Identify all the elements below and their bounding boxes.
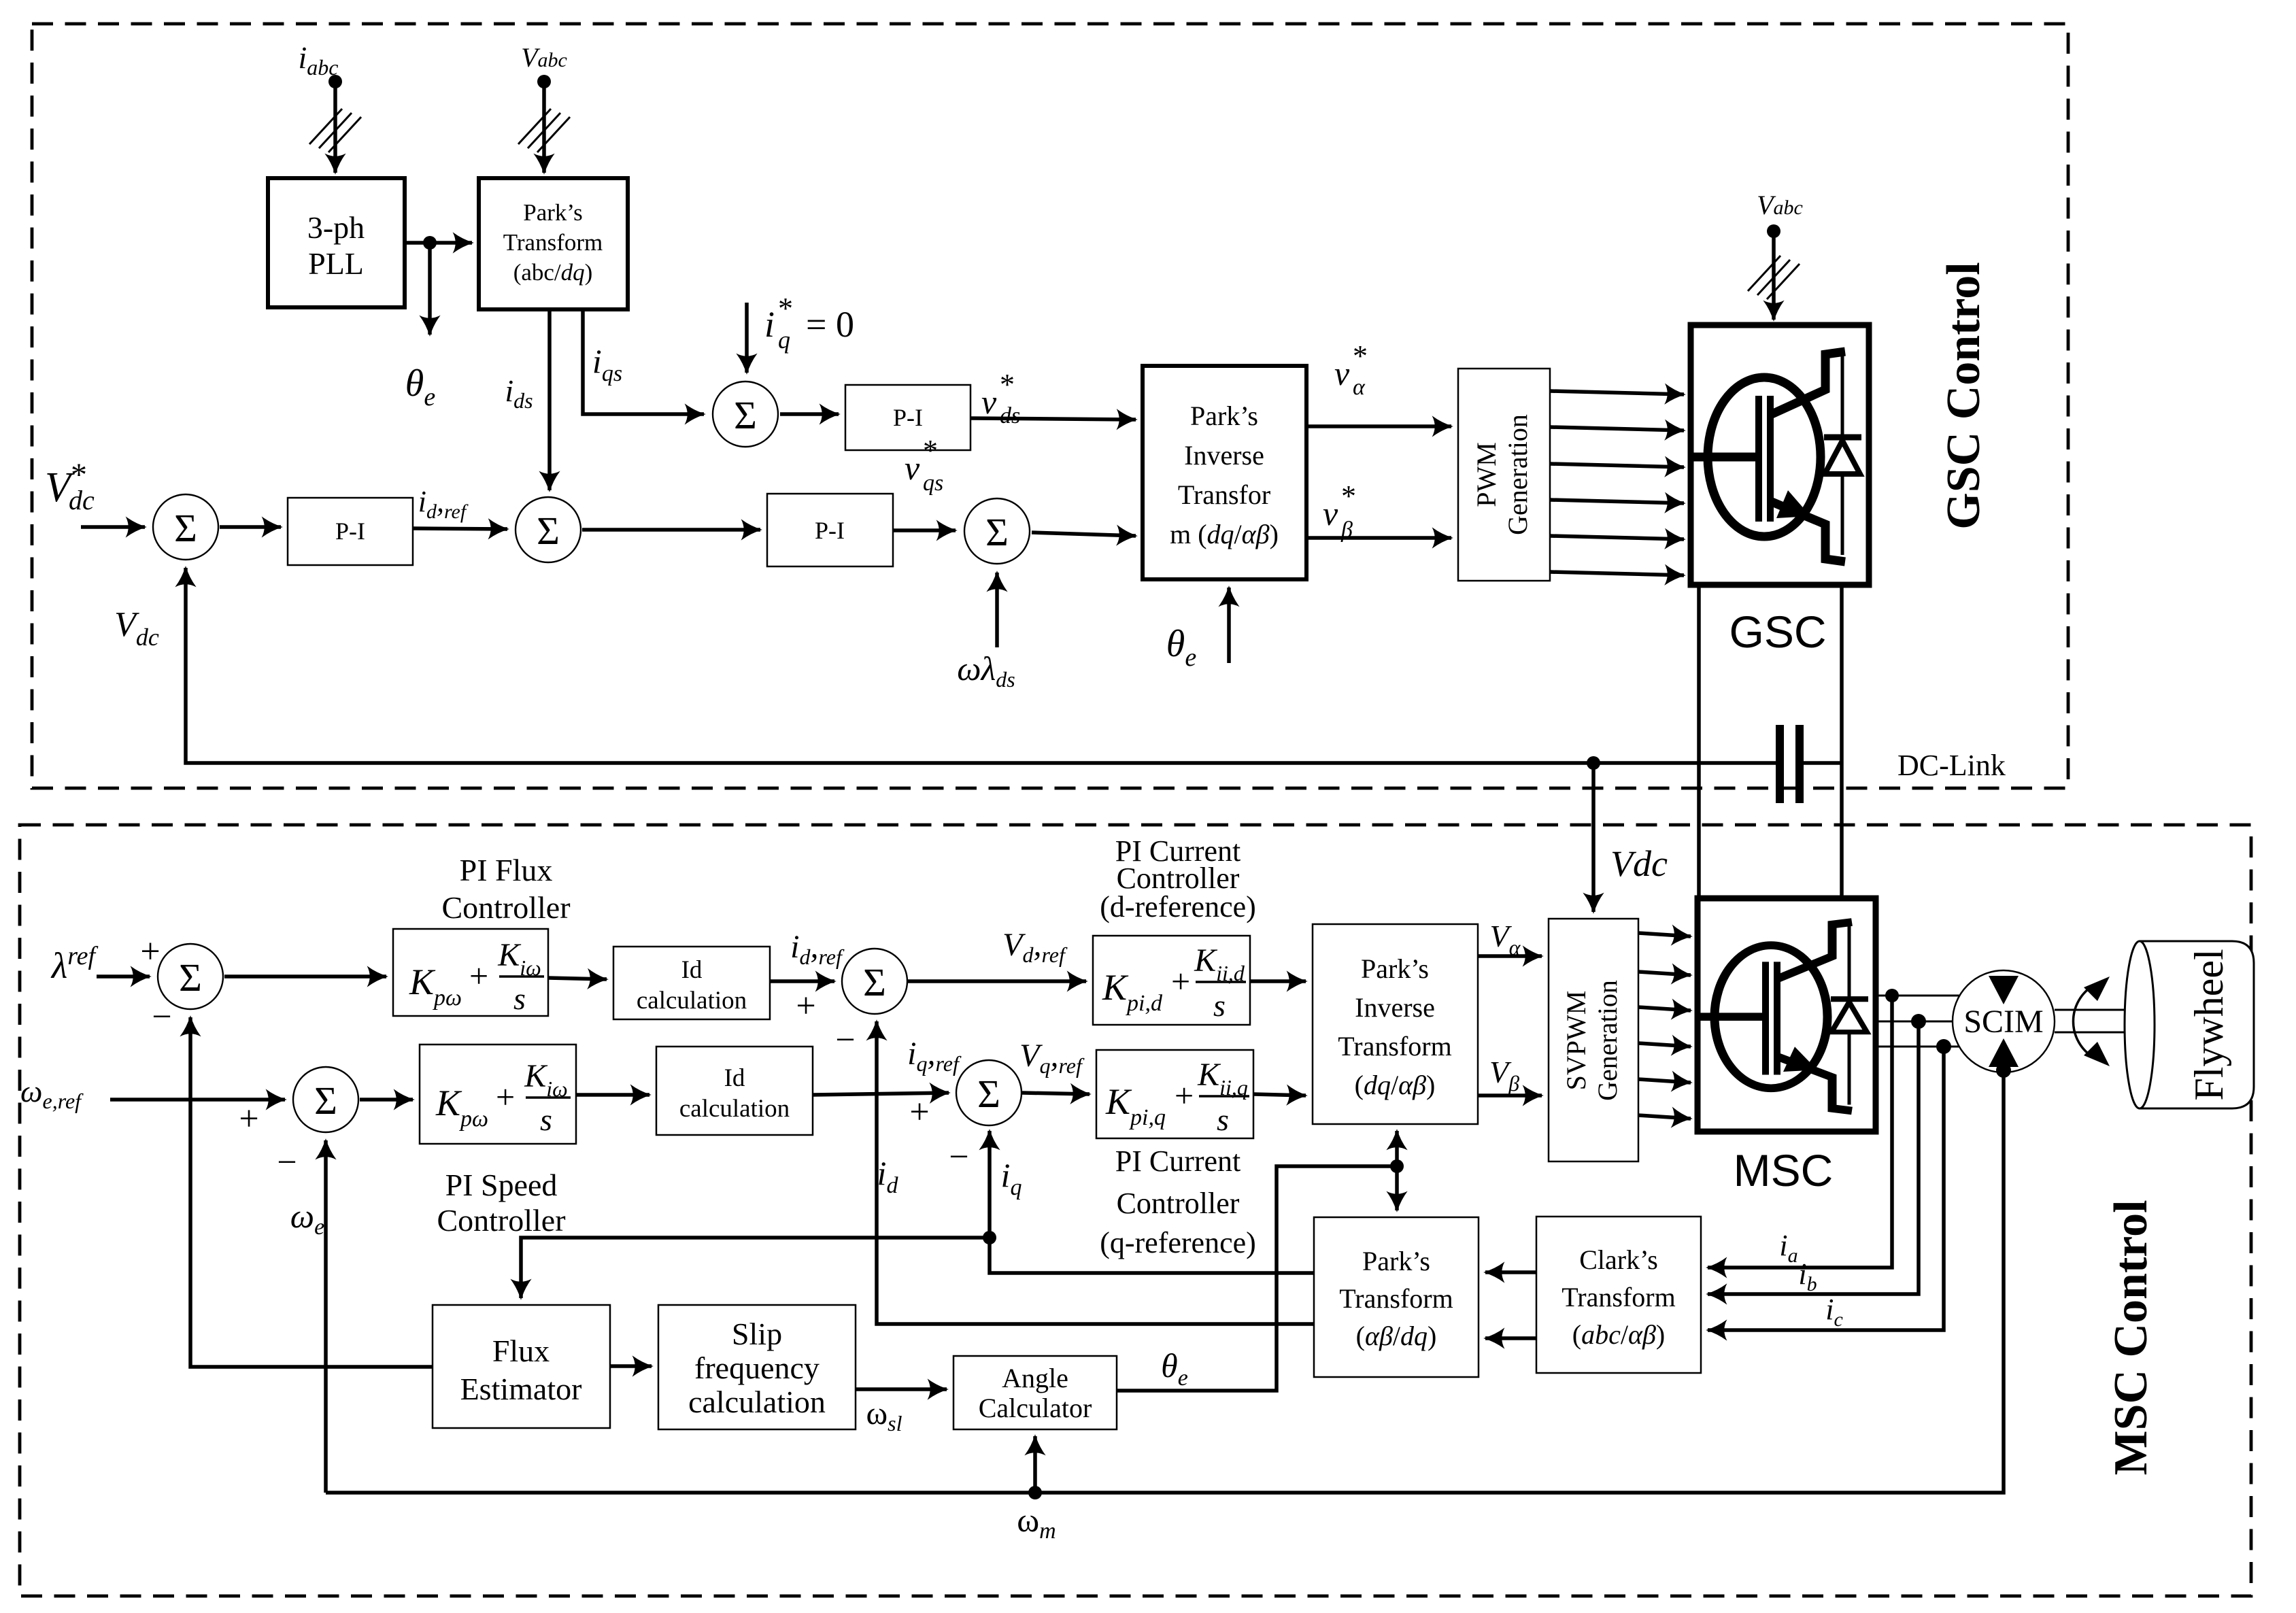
wire MSC phase c to SCIM xyxy=(1876,1046,1961,1048)
svg-text:β: β xyxy=(1340,517,1353,543)
svg-text:= 0: = 0 xyxy=(806,304,854,345)
svg-text:s: s xyxy=(1213,988,1226,1023)
wire vds* to Park's Inverse Transform xyxy=(970,368,1136,428)
svg-text:Σ: Σ xyxy=(174,506,197,550)
wire Sf to flux PI block xyxy=(224,974,386,979)
svg-text:Flux: Flux xyxy=(492,1334,550,1368)
machine SCIM xyxy=(1953,970,2055,1078)
wire SVPWM gate signal 2 to MSC xyxy=(1638,972,1691,975)
wire omega_e feedback into Ss xyxy=(290,1140,326,1493)
wire PWM gate signal 2 to GSC xyxy=(1550,427,1684,430)
svg-text:Transfor: Transfor xyxy=(1178,479,1270,510)
wire Vabc to Park's Transform with hash xyxy=(518,82,570,173)
wire Sq to P-I q controller xyxy=(780,412,839,416)
wire Flux Estimator to Slip frequency calculation xyxy=(610,1364,652,1368)
wire PWM gate signal 4 to GSC xyxy=(1550,500,1684,503)
svg-text:v: v xyxy=(981,383,997,421)
svg-text:Transform: Transform xyxy=(1561,1282,1675,1312)
node theta_e input to Park's Inverse xyxy=(1166,588,1229,672)
svg-text:Id: Id xyxy=(724,1064,745,1092)
svg-text:v: v xyxy=(1323,494,1338,532)
wire P-I to summing junction S3 xyxy=(893,528,956,532)
svg-text:Park’s: Park’s xyxy=(1361,953,1429,984)
svg-text:Transform: Transform xyxy=(1338,1031,1451,1062)
block Id calculation (q path) xyxy=(656,1047,813,1135)
summing junction S1 (Vdc control) xyxy=(153,494,218,560)
svg-text:*: * xyxy=(778,292,793,325)
wire flux feedback from Flux Estimator to Sf xyxy=(190,1017,433,1367)
svg-text:SVPWM: SVPWM xyxy=(1561,991,1591,1091)
svg-text:*: * xyxy=(923,434,938,467)
wire ids from Park's Transform to summing junction S2 xyxy=(505,309,550,490)
svg-text:+: + xyxy=(1175,1076,1194,1115)
wire Clark's to Park's Transform (alpha) xyxy=(1485,1270,1536,1274)
wire PWM gate signal 1 to GSC xyxy=(1550,391,1684,394)
svg-text:Σ: Σ xyxy=(977,1072,1000,1116)
svg-text:m (dq/αβ): m (dq/αβ) xyxy=(1170,519,1279,549)
svg-text:Vdc: Vdc xyxy=(1610,843,1668,884)
svg-text:Σ: Σ xyxy=(863,960,886,1004)
wire SVPWM gate signal 3 to MSC xyxy=(1638,1007,1691,1011)
summing junction S3 (feed-forward) xyxy=(964,498,1030,564)
svg-text:Flywheel: Flywheel xyxy=(2187,949,2231,1100)
svg-text:P-I: P-I xyxy=(815,517,845,544)
svg-text:dc: dc xyxy=(69,485,95,515)
svg-text:Controller: Controller xyxy=(441,890,570,925)
wire GSC to MSC DC bus right xyxy=(1840,585,1844,898)
svg-text:+: + xyxy=(469,957,488,995)
wire MSC phase b to SCIM xyxy=(1876,1021,1955,1023)
svg-text:Σ: Σ xyxy=(179,955,202,1000)
shaft SCIM to Flywheel xyxy=(2055,1010,2133,1032)
svg-text:*: * xyxy=(1341,479,1356,513)
wire flux PI to Id calculation xyxy=(548,978,607,979)
summing junction Sf (flux) xyxy=(158,944,223,1009)
svg-text:SCIM: SCIM xyxy=(1963,1004,2043,1040)
wire SVPWM gate signal 6 to MSC xyxy=(1638,1115,1691,1119)
wire Ss to speed PI xyxy=(360,1098,413,1102)
block speed PI Kpw+Kiw/s xyxy=(420,1045,576,1144)
capacitor DC-Link xyxy=(1776,725,2006,803)
svg-text:+: + xyxy=(496,1078,515,1116)
svg-text:Estimator: Estimator xyxy=(460,1372,582,1406)
svg-text:Transform: Transform xyxy=(503,229,603,256)
node junction phase b xyxy=(1911,1014,1926,1029)
svg-text:q: q xyxy=(778,326,790,354)
svg-text:(αβ/dq): (αβ/dq) xyxy=(1356,1321,1437,1351)
wire Vq,ref to q current PI xyxy=(1019,1038,1090,1094)
svg-text:Id: Id xyxy=(681,956,703,984)
block SVPWM Generation xyxy=(1549,919,1638,1161)
block 3-ph PLL xyxy=(268,178,405,307)
wire d current PI to Park's Inverse (MSC) xyxy=(1250,979,1306,983)
wire iq from Park's Transform to Sq2 and Flux Estimator xyxy=(521,1131,1314,1298)
wire q current PI to Park's Inverse (MSC) xyxy=(1253,1094,1306,1096)
wire Vbeta to SVPWM xyxy=(1478,1055,1542,1096)
svg-text:α: α xyxy=(1353,375,1366,400)
block q current PI Kpiq+Kiiq/s xyxy=(1096,1050,1253,1138)
node lambda-ref input xyxy=(50,932,172,1036)
summing junction Sq (q-axis GSC) xyxy=(713,381,778,447)
wire PLL to Park's Transform xyxy=(405,236,472,250)
svg-text:Inverse: Inverse xyxy=(1355,992,1435,1023)
block Clark's Transform (abc/ab) xyxy=(1536,1217,1701,1373)
svg-text:qs: qs xyxy=(923,471,943,496)
wire Vdc feedback from DC-link to S1 xyxy=(114,568,1779,763)
summing junction Sq2 (q current) xyxy=(956,1060,1022,1125)
wire GSC to MSC DC bus left xyxy=(1697,585,1701,898)
wire id from Park's Transform to Sd xyxy=(877,1021,1314,1324)
svg-text:+: + xyxy=(796,987,815,1025)
svg-text:Transform: Transform xyxy=(1339,1283,1453,1314)
block Angle Calculator xyxy=(953,1356,1117,1429)
svg-text:(dq/αβ): (dq/αβ) xyxy=(1355,1070,1436,1100)
svg-text:PI Speed: PI Speed xyxy=(445,1168,558,1202)
heading PI Speed Controller xyxy=(437,1168,565,1238)
svg-text:GSC Control: GSC Control xyxy=(1938,262,1990,529)
svg-text:P-I: P-I xyxy=(335,517,365,545)
svg-text:i: i xyxy=(764,304,775,345)
node iq*=0 reference input xyxy=(747,292,854,373)
svg-text:*: * xyxy=(1353,339,1368,373)
block flux PI Kpw+Kiw/s xyxy=(393,929,548,1016)
wire S3 to Park's Inverse Transform xyxy=(1032,532,1136,536)
wire Vabc to GSC with 3-phase hash xyxy=(1748,231,1800,320)
svg-text:(q-reference): (q-reference) xyxy=(1100,1226,1256,1259)
heading PI Current Controller (d-reference) xyxy=(1100,834,1256,923)
wire speed PI to Id calculation (q path) xyxy=(576,1093,649,1097)
svg-text:ds: ds xyxy=(1000,403,1020,428)
svg-text:*: * xyxy=(1000,368,1015,401)
svg-text:PWM: PWM xyxy=(1471,442,1502,507)
svg-text:calculation: calculation xyxy=(679,1095,790,1123)
svg-text:−: − xyxy=(152,998,171,1036)
svg-text:PI Current: PI Current xyxy=(1115,1144,1241,1178)
node omega-lambda-ds feed-forward input xyxy=(957,573,1015,692)
wire iqs from Park's Transform to summing junction Sq xyxy=(583,309,704,414)
wire valpha* to PWM Generation xyxy=(1306,339,1451,426)
flywheel cylinder xyxy=(2125,941,2254,1108)
svg-text:Park’s: Park’s xyxy=(1190,401,1258,431)
wire SVPWM gate signal 1 to MSC xyxy=(1638,933,1691,936)
block P-I controller (q-axis) xyxy=(845,385,970,450)
node omega-e-ref input xyxy=(20,1074,297,1182)
wire S2 to P-I d controller xyxy=(582,528,760,532)
svg-text:frequency: frequency xyxy=(694,1351,820,1385)
wire iq,ref to summing junction Sq2 xyxy=(813,1036,969,1176)
wire Vdc sense from DC-link to SVPWM xyxy=(1587,756,1668,912)
svg-text:−: − xyxy=(949,1138,968,1176)
block P-I controller (dc-link) xyxy=(288,498,413,565)
svg-text:v: v xyxy=(905,449,920,487)
wire id,ref to summing junction Sd xyxy=(770,929,856,1059)
svg-text:P-I: P-I xyxy=(893,404,923,431)
svg-text:calculation: calculation xyxy=(637,987,747,1015)
node junction phase c xyxy=(1936,1039,1951,1054)
svg-text:PLL: PLL xyxy=(308,246,364,281)
node Vabc input terminal (left) xyxy=(521,42,567,88)
summing junction Ss (speed) xyxy=(293,1067,358,1132)
svg-text:Angle: Angle xyxy=(1002,1363,1068,1393)
svg-text:GSC: GSC xyxy=(1729,607,1826,657)
wire Valpha to SVPWM xyxy=(1478,919,1542,960)
block PWM Generation xyxy=(1458,369,1550,581)
wire omega_m measurement from SCIM xyxy=(326,1073,2004,1544)
rotation arrow on shaft xyxy=(2073,977,2110,1066)
node Vabc grid terminal at GSC xyxy=(1757,190,1803,238)
svg-text:+: + xyxy=(239,1100,258,1138)
svg-text:s: s xyxy=(1217,1102,1229,1137)
wire SVPWM gate signal 4 to MSC xyxy=(1638,1043,1691,1047)
heading PI Flux Controller xyxy=(441,853,570,925)
svg-text:(abc/dq): (abc/dq) xyxy=(513,259,593,286)
svg-text:Calculator: Calculator xyxy=(979,1393,1092,1423)
svg-text:+: + xyxy=(1171,962,1190,1000)
svg-text:Generation: Generation xyxy=(1502,414,1533,535)
svg-text:+: + xyxy=(140,932,160,971)
label MSC Control (rotated) xyxy=(2105,1200,2157,1475)
wire S1 to P-I dc controller xyxy=(220,525,281,529)
converter MSC (IGBT bridge) xyxy=(1698,898,1876,1132)
block Slip frequency calculation xyxy=(658,1305,856,1429)
block Park's Inverse Transform (dq/ab) GSC xyxy=(1143,366,1306,579)
svg-text:s: s xyxy=(540,1102,552,1137)
svg-text:Σ: Σ xyxy=(734,393,757,437)
converter GSC (IGBT bridge) xyxy=(1691,325,1869,585)
svg-text:Slip: Slip xyxy=(732,1317,782,1351)
MSC Control dashed border box xyxy=(20,825,2251,1596)
node Vdc* reference input xyxy=(45,457,145,527)
GSC Control dashed border box xyxy=(32,24,2068,788)
summing junction S2 (d-axis GSC) xyxy=(516,497,581,562)
svg-text:−: − xyxy=(277,1143,297,1182)
svg-text:Σ: Σ xyxy=(537,509,560,553)
summing junction Sd (d current) xyxy=(842,949,907,1014)
svg-text:(d-reference): (d-reference) xyxy=(1100,890,1256,923)
svg-text:MSC: MSC xyxy=(1734,1145,1834,1195)
wire Vd,ref to d current PI xyxy=(908,927,1086,981)
svg-text:Clark’s: Clark’s xyxy=(1579,1244,1658,1275)
wire Clark's to Park's Transform (beta) xyxy=(1485,1336,1536,1340)
svg-text:Controller: Controller xyxy=(1117,1187,1240,1220)
block Park's Inverse Transform (dq/ab) MSC xyxy=(1313,924,1478,1124)
block Flux Estimator xyxy=(433,1305,610,1428)
wire theta_e from Angle Calculator to Park blocks xyxy=(1117,1131,1404,1391)
wire id,ref to summing junction S2 xyxy=(413,485,507,529)
block Park's Transform (ab/dq) xyxy=(1314,1217,1479,1377)
wire PWM gate signal 6 to GSC xyxy=(1550,572,1684,575)
svg-text:s: s xyxy=(513,981,526,1016)
block d current PI Kpid+Kiid/s xyxy=(1093,936,1250,1025)
svg-text:Controller: Controller xyxy=(437,1203,565,1238)
heading PI Current Controller (q-reference) xyxy=(1100,1144,1256,1259)
wire theta_e output down from PLL junction xyxy=(405,243,436,411)
svg-text:Inverse: Inverse xyxy=(1184,440,1264,471)
svg-text:Σ: Σ xyxy=(985,510,1009,554)
svg-text:calculation: calculation xyxy=(688,1385,826,1419)
svg-text:Σ: Σ xyxy=(314,1079,337,1123)
svg-text:Generation: Generation xyxy=(1592,980,1623,1101)
wire SVPWM gate signal 5 to MSC xyxy=(1638,1079,1691,1083)
svg-text:3-ph: 3-ph xyxy=(307,210,365,245)
svg-text:Park’s: Park’s xyxy=(523,199,583,226)
wire MSC phase a to SCIM xyxy=(1876,995,1961,997)
svg-text:DC-Link: DC-Link xyxy=(1897,749,2006,782)
wire ib from MSC phase b to Clark's xyxy=(1708,1021,1919,1295)
svg-text:MSC Control: MSC Control xyxy=(2105,1200,2157,1475)
wire vbeta* to PWM Generation xyxy=(1306,479,1451,543)
svg-text:(abc/αβ): (abc/αβ) xyxy=(1572,1319,1665,1350)
svg-text:v: v xyxy=(1334,354,1350,392)
node iabc input terminal xyxy=(299,40,342,88)
wire PWM gate signal 3 to GSC xyxy=(1550,464,1684,467)
svg-text:Park’s: Park’s xyxy=(1362,1246,1430,1276)
block P-I controller (d-axis) xyxy=(767,494,893,566)
svg-text:−: − xyxy=(835,1021,855,1059)
wire ic from MSC phase c to Clark's xyxy=(1708,1047,1944,1331)
label GSC Control (rotated) xyxy=(1938,262,1990,529)
svg-text:+: + xyxy=(909,1093,929,1132)
wire ia from MSC phase a to Clark's xyxy=(1708,996,1892,1268)
wire omega_sl to Angle Calculator xyxy=(856,1389,947,1436)
wire iabc to 3-ph PLL with 3-phase hash xyxy=(309,82,361,173)
wire PWM gate signal 5 to GSC xyxy=(1550,536,1684,539)
svg-text:PI Flux: PI Flux xyxy=(460,853,553,887)
block Park's Transform (abc/dq) xyxy=(479,178,628,309)
block Id calculation (flux path) xyxy=(613,947,770,1019)
node junction phase a xyxy=(1885,989,1899,1002)
